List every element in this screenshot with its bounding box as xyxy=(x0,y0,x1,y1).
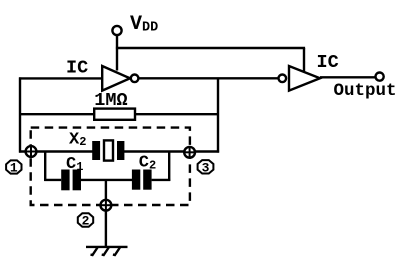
wire output xyxy=(320,76,376,78)
resistor R1 xyxy=(94,109,135,120)
svg-text:IC: IC xyxy=(317,52,339,73)
wire VDD rail horizontal xyxy=(116,47,305,49)
capacitor C2 xyxy=(132,170,140,190)
right rail wire xyxy=(217,78,219,152)
node 2 junction xyxy=(101,200,112,211)
node label 1 xyxy=(6,160,21,175)
wire VDD rail drop to inverter U2 xyxy=(303,48,305,72)
node 3 junction xyxy=(184,147,195,158)
wire U1 output to U2 input xyxy=(139,77,279,79)
svg-text:1: 1 xyxy=(10,161,18,176)
wire VDD drop to inverter U1 xyxy=(116,35,118,71)
node label 2 xyxy=(78,213,93,228)
wire crystal to node3 xyxy=(124,150,190,152)
left rail wire xyxy=(19,77,21,152)
svg-text:Output: Output xyxy=(334,81,397,101)
resistor R1 wires xyxy=(20,113,94,115)
capacitor C1 xyxy=(61,170,69,191)
wire center drop to ground xyxy=(105,180,107,247)
wire input U1 xyxy=(19,77,102,79)
svg-text:3: 3 xyxy=(202,160,210,175)
node label 3 xyxy=(198,160,214,175)
svg-text:IC: IC xyxy=(66,58,88,79)
crystal X2 xyxy=(92,141,100,160)
wire cap row left xyxy=(44,179,61,181)
wire cap branch left drop xyxy=(44,151,46,182)
Output terminal xyxy=(376,73,384,81)
op-amp inverter U2 xyxy=(279,75,287,83)
node 1 junction xyxy=(26,146,37,157)
wire cap row middle xyxy=(81,179,132,181)
wire cap row right xyxy=(152,179,171,181)
VDD terminal xyxy=(112,26,121,35)
dashed module box xyxy=(31,128,190,205)
wire node1 to crystal xyxy=(19,150,93,152)
wire cap branch right riser xyxy=(168,151,170,182)
ground xyxy=(86,247,128,255)
op-amp inverter U1 xyxy=(102,66,130,91)
svg-text:2: 2 xyxy=(82,214,90,229)
